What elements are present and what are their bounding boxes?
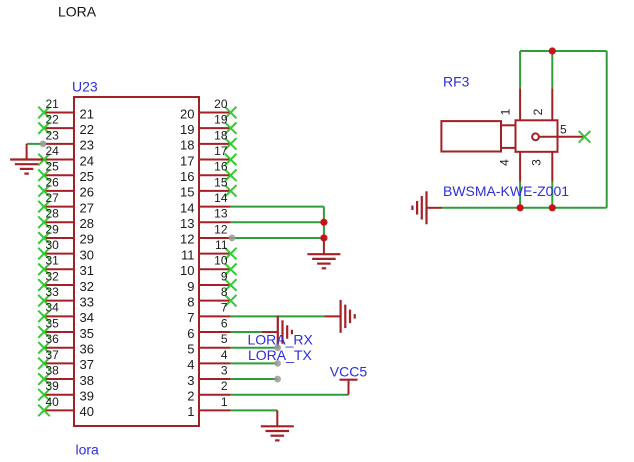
svg-text:24: 24 <box>46 144 60 158</box>
svg-text:14: 14 <box>180 200 194 215</box>
U23 pin 38 name <box>80 373 94 388</box>
U23 pin 9 name <box>187 279 194 294</box>
U23 pin 11 name <box>181 247 195 262</box>
U23 pin 3 number <box>221 363 228 377</box>
U23 pin 5 <box>199 347 231 349</box>
U23 pin 34 <box>38 311 74 323</box>
svg-text:19: 19 <box>180 122 194 137</box>
U23 pin 36 name <box>80 342 94 357</box>
U23 pin 1 number <box>221 395 228 409</box>
U23 pin 21 <box>38 107 74 119</box>
U23 pin 39 <box>38 389 74 401</box>
U23 pin 35 <box>38 326 74 338</box>
U23 pin 37 name <box>80 357 94 372</box>
U23 pin 22 <box>38 122 74 134</box>
svg-text:24: 24 <box>80 153 94 168</box>
wire pin 7 to ground <box>231 315 325 317</box>
svg-text:20: 20 <box>180 106 194 121</box>
U23 pin 28 name <box>80 216 94 231</box>
svg-text:36: 36 <box>46 332 60 346</box>
svg-text:25: 25 <box>80 169 94 184</box>
U23 pin 18 number <box>214 128 228 142</box>
wire RF3 pin 2 up <box>551 51 553 88</box>
U23 pin 4 number <box>221 348 228 362</box>
wire RF3 pin 4 down <box>519 182 521 208</box>
svg-text:11: 11 <box>181 247 195 262</box>
svg-text:LORA: LORA <box>58 3 97 19</box>
ground GND right of pin 7 <box>324 300 355 333</box>
ground GND below pin 1 wire <box>261 410 294 440</box>
svg-text:16: 16 <box>180 169 194 184</box>
svg-text:26: 26 <box>46 175 60 189</box>
wire RF3 bottom horizontal <box>442 207 607 209</box>
wire RF3 pin 3 down <box>551 182 553 208</box>
U23 pin 12 number <box>214 222 228 236</box>
U23 pin 10 name <box>180 263 194 278</box>
svg-text:15: 15 <box>214 175 228 189</box>
svg-text:LORA_TX: LORA_TX <box>248 347 312 363</box>
svg-text:35: 35 <box>80 326 94 341</box>
U23 pin 5 number <box>221 332 228 346</box>
svg-text:36: 36 <box>80 342 94 357</box>
U23 pin 3 <box>199 378 231 380</box>
wire pin 2 to VCC5 <box>231 394 349 396</box>
RF3 pin 1 <box>519 88 521 120</box>
U23 pin 27 <box>38 201 74 213</box>
U23 pin 26 number <box>46 175 60 189</box>
U23 pin 16 number <box>214 160 228 174</box>
wire pin 14 horizontal <box>231 206 324 208</box>
ground GND left of U23 <box>10 144 43 174</box>
svg-text:32: 32 <box>46 269 60 283</box>
U23 pin 8 number <box>221 285 228 299</box>
svg-text:15: 15 <box>180 185 194 200</box>
U23 pin 15 number <box>214 175 228 189</box>
wire pin 1 to ground <box>231 409 278 411</box>
U23 pin 24 <box>38 154 74 166</box>
svg-text:22: 22 <box>46 113 60 127</box>
svg-text:VCC5: VCC5 <box>330 363 368 379</box>
svg-text:9: 9 <box>187 279 194 294</box>
junction RF3 bottom pin 4 <box>517 204 524 211</box>
U23 pin 36 <box>38 342 74 354</box>
svg-text:38: 38 <box>46 363 60 377</box>
svg-text:11: 11 <box>215 238 228 252</box>
U23 pin 16 <box>199 169 237 181</box>
U23 pin 26 name <box>80 185 94 200</box>
U23 pin 25 name <box>80 169 94 184</box>
U23 pin 19 <box>199 122 237 134</box>
U23 pin 7 number <box>221 301 228 315</box>
svg-text:26: 26 <box>80 185 94 200</box>
U23 pin 19 number <box>214 113 228 127</box>
svg-text:37: 37 <box>80 357 94 372</box>
svg-text:29: 29 <box>46 222 60 236</box>
U23 pin 10 <box>199 264 237 276</box>
svg-text:4: 4 <box>498 159 512 166</box>
U23 pin 18 <box>199 138 237 150</box>
U23 pin 29 number <box>46 222 60 236</box>
svg-text:3: 3 <box>221 363 228 377</box>
U23 pin 6 name <box>187 326 194 341</box>
wire RF3 right vertical <box>606 51 608 208</box>
svg-text:12: 12 <box>180 232 194 247</box>
svg-text:38: 38 <box>80 373 94 388</box>
junction RF3 bottom pin 3 <box>549 204 556 211</box>
U23 pin 40 <box>38 405 74 417</box>
dangling dot pin 12 <box>229 235 236 242</box>
connector RF3 designator <box>443 74 470 90</box>
svg-text:19: 19 <box>214 113 228 127</box>
U23 pin 33 <box>38 295 74 307</box>
U23 pin 11 <box>199 248 237 260</box>
RF3 pin 1 number <box>499 108 513 115</box>
svg-text:6: 6 <box>221 316 228 330</box>
svg-text:31: 31 <box>80 263 94 278</box>
svg-text:23: 23 <box>80 138 94 153</box>
dangling dot pin 4 <box>274 360 281 367</box>
svg-text:40: 40 <box>80 404 94 419</box>
net label LORA_RX <box>248 331 314 347</box>
U23 pin 22 number <box>46 113 60 127</box>
connector RF3 part number BWSMA-KWE-Z001 <box>443 183 569 199</box>
U23 pin 9 number <box>221 269 228 283</box>
svg-text:4: 4 <box>187 357 194 372</box>
U23 pin 28 <box>38 216 74 228</box>
svg-text:28: 28 <box>80 216 94 231</box>
wire pin 13 horizontal <box>231 221 324 223</box>
U23 pin 31 name <box>80 263 94 278</box>
IC U23 designator <box>72 79 98 95</box>
U23 pin 39 name <box>80 389 94 404</box>
U23 pin 8 name <box>187 294 194 309</box>
U23 pin 34 number <box>46 301 60 315</box>
wire RF3 pin 1 up <box>519 51 521 88</box>
wire pin 5 LORA_RX <box>231 347 278 349</box>
connector RF3 barrel <box>441 121 501 151</box>
junction pin 12 bus <box>320 234 327 241</box>
U23 pin 22 name <box>80 122 94 137</box>
ground GND right of pin 6 <box>262 316 292 349</box>
U23 pin 33 name <box>80 294 94 309</box>
U23 pin 14 number <box>214 191 228 205</box>
svg-text:1: 1 <box>499 108 513 115</box>
U23 pin 39 number <box>46 379 60 393</box>
svg-text:14: 14 <box>214 191 228 205</box>
connector RF3 neck <box>501 125 516 148</box>
svg-text:5: 5 <box>187 342 194 357</box>
U23 pin 12 <box>199 237 231 239</box>
svg-text:22: 22 <box>80 122 94 137</box>
RF3 pin 3 number <box>530 159 544 166</box>
wire RF3 top horizontal <box>520 50 607 52</box>
U23 pin 7 <box>199 315 231 317</box>
U23 pin 33 number <box>46 285 60 299</box>
IC U23 comment label lora <box>76 442 100 458</box>
U23 pin 30 name <box>80 247 94 262</box>
svg-text:28: 28 <box>46 207 60 221</box>
U23 pin 24 name <box>80 153 94 168</box>
U23 pin 36 number <box>46 332 60 346</box>
U23 pin 32 name <box>80 279 94 294</box>
junction RF3 top <box>549 47 556 54</box>
svg-text:4: 4 <box>221 348 228 362</box>
U23 pin 4 <box>199 362 231 364</box>
connector RF3 center pin circle <box>532 133 539 140</box>
wire pin 12 horizontal <box>231 237 324 239</box>
U23 pin 23 number <box>46 128 60 142</box>
U23 pin 6 number <box>221 316 228 330</box>
U23 pin 17 number <box>214 144 228 158</box>
RF3 pin 2 <box>551 88 553 120</box>
U23 pin 24 number <box>46 144 60 158</box>
U23 pin 20 number <box>214 97 228 111</box>
svg-text:9: 9 <box>221 269 228 283</box>
wire pin 4 LORA_TX <box>231 362 278 364</box>
U23 pin 31 <box>38 264 74 276</box>
svg-text:35: 35 <box>46 316 60 330</box>
U23 pin 30 <box>38 248 74 260</box>
svg-text:40: 40 <box>46 395 60 409</box>
svg-text:2: 2 <box>221 379 228 393</box>
U23 pin 17 <box>199 154 237 166</box>
U23 pin 2 number <box>221 379 228 393</box>
wire vertical bus pins 14-13-12 <box>323 207 325 238</box>
U23 pin 13 name <box>180 216 194 231</box>
net label LORA_TX <box>248 347 312 363</box>
svg-text:21: 21 <box>80 106 94 121</box>
U23 pin 14 <box>199 206 231 208</box>
U23 pin 23 name <box>80 138 94 153</box>
svg-text:25: 25 <box>46 160 60 174</box>
U23 pin 29 name <box>80 232 94 247</box>
U23 pin 38 number <box>46 363 60 377</box>
svg-text:10: 10 <box>180 263 194 278</box>
svg-text:20: 20 <box>214 97 228 111</box>
U23 pin 37 number <box>46 348 60 362</box>
svg-text:17: 17 <box>214 144 228 158</box>
svg-text:10: 10 <box>214 254 228 268</box>
svg-text:BWSMA-KWE-Z001: BWSMA-KWE-Z001 <box>443 183 569 199</box>
U23 pin 15 <box>199 185 237 197</box>
svg-text:21: 21 <box>46 97 60 111</box>
U23 pin 1 name <box>187 404 194 419</box>
svg-text:3: 3 <box>530 159 544 166</box>
IC U23 body <box>74 97 199 426</box>
svg-text:7: 7 <box>187 310 194 325</box>
U23 pin 38 <box>38 373 74 385</box>
svg-text:27: 27 <box>80 200 94 215</box>
U23 pin 20 <box>199 107 237 119</box>
U23 pin 21 name <box>80 106 94 121</box>
U23 pin 27 number <box>46 191 60 205</box>
connector RF3 body <box>516 120 558 152</box>
RF3 pin 3 <box>551 152 553 182</box>
ground GND left of RF3 <box>412 191 442 224</box>
svg-text:31: 31 <box>46 254 60 268</box>
RF3 pin 5 number <box>560 122 567 136</box>
junction pin 13 bus <box>320 219 327 226</box>
svg-text:30: 30 <box>80 247 94 262</box>
U23 pin 40 name <box>80 404 94 419</box>
U23 pin 30 number <box>46 238 60 252</box>
wire pin 6 to ground <box>231 331 262 333</box>
svg-text:18: 18 <box>180 138 194 153</box>
svg-text:33: 33 <box>46 285 60 299</box>
U23 pin 40 number <box>46 395 60 409</box>
U23 pin 26 <box>38 185 74 197</box>
svg-text:29: 29 <box>80 232 94 247</box>
U23 pin 35 number <box>46 316 60 330</box>
RF3 pin 4 number <box>498 159 512 166</box>
U23 pin 6 <box>199 331 231 333</box>
U23 pin 4 name <box>187 357 194 372</box>
svg-text:LORA_RX: LORA_RX <box>248 331 314 347</box>
svg-text:8: 8 <box>187 294 194 309</box>
U23 pin 28 number <box>46 207 60 221</box>
U23 pin 11 number <box>215 238 228 252</box>
U23 pin 21 number <box>46 97 60 111</box>
RF3 pin 5 <box>539 131 590 143</box>
svg-text:5: 5 <box>221 332 228 346</box>
svg-text:1: 1 <box>221 395 228 409</box>
svg-text:34: 34 <box>80 310 94 325</box>
RF3 pin 2 number <box>531 108 545 115</box>
U23 pin 7 name <box>187 310 194 325</box>
svg-text:13: 13 <box>214 207 228 221</box>
sheet title LORA <box>58 3 97 19</box>
power symbol VCC5 <box>340 380 358 395</box>
U23 pin 10 number <box>214 254 228 268</box>
U23 pin 37 <box>38 358 74 370</box>
U23 pin 27 name <box>80 200 94 215</box>
U23 pin 12 name <box>180 232 194 247</box>
svg-text:lora: lora <box>76 442 100 458</box>
power label VCC5 <box>330 363 368 379</box>
U23 pin 23 <box>44 143 74 145</box>
svg-text:39: 39 <box>80 389 94 404</box>
RF3 pin 4 <box>519 152 521 182</box>
U23 pin 29 <box>38 232 74 244</box>
U23 pin 13 <box>199 221 231 223</box>
U23 pin 35 name <box>80 326 94 341</box>
U23 pin 5 name <box>187 342 194 357</box>
svg-text:18: 18 <box>214 128 228 142</box>
U23 pin 9 <box>199 279 237 291</box>
dangling dot pin 5 <box>274 344 281 351</box>
svg-text:39: 39 <box>46 379 60 393</box>
U23 pin 17 name <box>180 153 194 168</box>
U23 pin 16 name <box>180 169 194 184</box>
ground GND below pins 12-13-14 bus <box>307 238 340 268</box>
svg-text:34: 34 <box>46 301 60 315</box>
svg-text:37: 37 <box>46 348 60 362</box>
wire pin 23 stub to ground tap <box>27 143 43 145</box>
svg-text:32: 32 <box>80 279 94 294</box>
svg-text:17: 17 <box>180 153 194 168</box>
svg-text:2: 2 <box>531 108 545 115</box>
svg-text:23: 23 <box>46 128 60 142</box>
svg-text:30: 30 <box>46 238 60 252</box>
svg-text:5: 5 <box>560 122 567 136</box>
U23 pin 3 name <box>187 373 194 388</box>
dangling dot pin 3 <box>274 376 281 383</box>
svg-text:2: 2 <box>187 389 194 404</box>
svg-text:6: 6 <box>187 326 194 341</box>
U23 pin 15 name <box>180 185 194 200</box>
U23 pin 18 name <box>180 138 194 153</box>
U23 pin 34 name <box>80 310 94 325</box>
svg-text:27: 27 <box>46 191 60 205</box>
dangling dot pin 23 <box>40 140 47 147</box>
U23 pin 13 number <box>214 207 228 221</box>
U23 pin 25 <box>38 169 74 181</box>
U23 pin 1 <box>199 409 231 411</box>
svg-text:13: 13 <box>180 216 194 231</box>
U23 pin 8 <box>199 295 237 307</box>
U23 pin 31 number <box>46 254 60 268</box>
svg-text:12: 12 <box>214 222 228 236</box>
svg-text:16: 16 <box>214 160 228 174</box>
svg-text:8: 8 <box>221 285 228 299</box>
U23 pin 2 name <box>187 389 194 404</box>
U23 pin 25 number <box>46 160 60 174</box>
U23 pin 32 number <box>46 269 60 283</box>
svg-text:33: 33 <box>80 294 94 309</box>
svg-text:1: 1 <box>187 404 194 419</box>
U23 pin 20 name <box>180 106 194 121</box>
svg-text:7: 7 <box>221 301 228 315</box>
svg-text:RF3: RF3 <box>443 74 470 90</box>
U23 pin 14 name <box>180 200 194 215</box>
svg-text:3: 3 <box>187 373 194 388</box>
U23 pin 32 <box>38 279 74 291</box>
U23 pin 2 <box>199 394 231 396</box>
U23 pin 19 name <box>180 122 194 137</box>
svg-text:U23: U23 <box>72 79 98 95</box>
wire pin 3 <box>231 378 278 380</box>
